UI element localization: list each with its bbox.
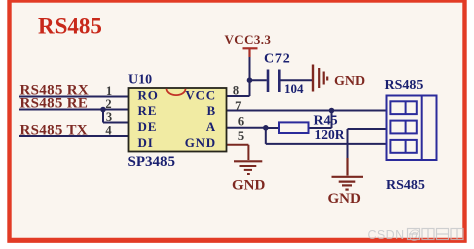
svg-text:2: 2 <box>105 97 111 111</box>
svg-text:RS485: RS485 <box>385 78 424 93</box>
svg-text:120R: 120R <box>315 127 345 142</box>
svg-text:7: 7 <box>235 99 241 113</box>
svg-text:DE: DE <box>138 119 158 134</box>
svg-text:GND: GND <box>328 191 362 207</box>
svg-text:1: 1 <box>106 84 112 98</box>
svg-text:GND: GND <box>232 177 266 193</box>
svg-text:GND: GND <box>185 135 216 150</box>
svg-text:U10: U10 <box>128 73 152 88</box>
svg-text:5: 5 <box>238 129 244 143</box>
svg-text:6: 6 <box>238 114 244 128</box>
svg-text:RE: RE <box>138 103 158 118</box>
svg-text:104: 104 <box>284 81 304 96</box>
svg-text:GND: GND <box>334 74 365 89</box>
svg-text:RS485: RS485 <box>386 178 425 193</box>
svg-text:3: 3 <box>106 110 112 124</box>
svg-text:A: A <box>206 119 216 134</box>
svg-text:RS485: RS485 <box>38 14 102 39</box>
svg-text:SP3485: SP3485 <box>128 154 176 170</box>
svg-text:RO: RO <box>138 88 159 103</box>
svg-text:RS485 TX: RS485 TX <box>20 123 88 139</box>
svg-text:VCC3.3: VCC3.3 <box>225 32 272 47</box>
svg-text:DI: DI <box>138 135 154 150</box>
svg-text:C72: C72 <box>264 51 291 66</box>
svg-text:4: 4 <box>105 124 112 138</box>
svg-text:8: 8 <box>233 83 239 97</box>
svg-text:VCC: VCC <box>185 88 216 103</box>
svg-text:RS485 RE: RS485 RE <box>20 96 89 112</box>
svg-text:B: B <box>207 103 216 118</box>
